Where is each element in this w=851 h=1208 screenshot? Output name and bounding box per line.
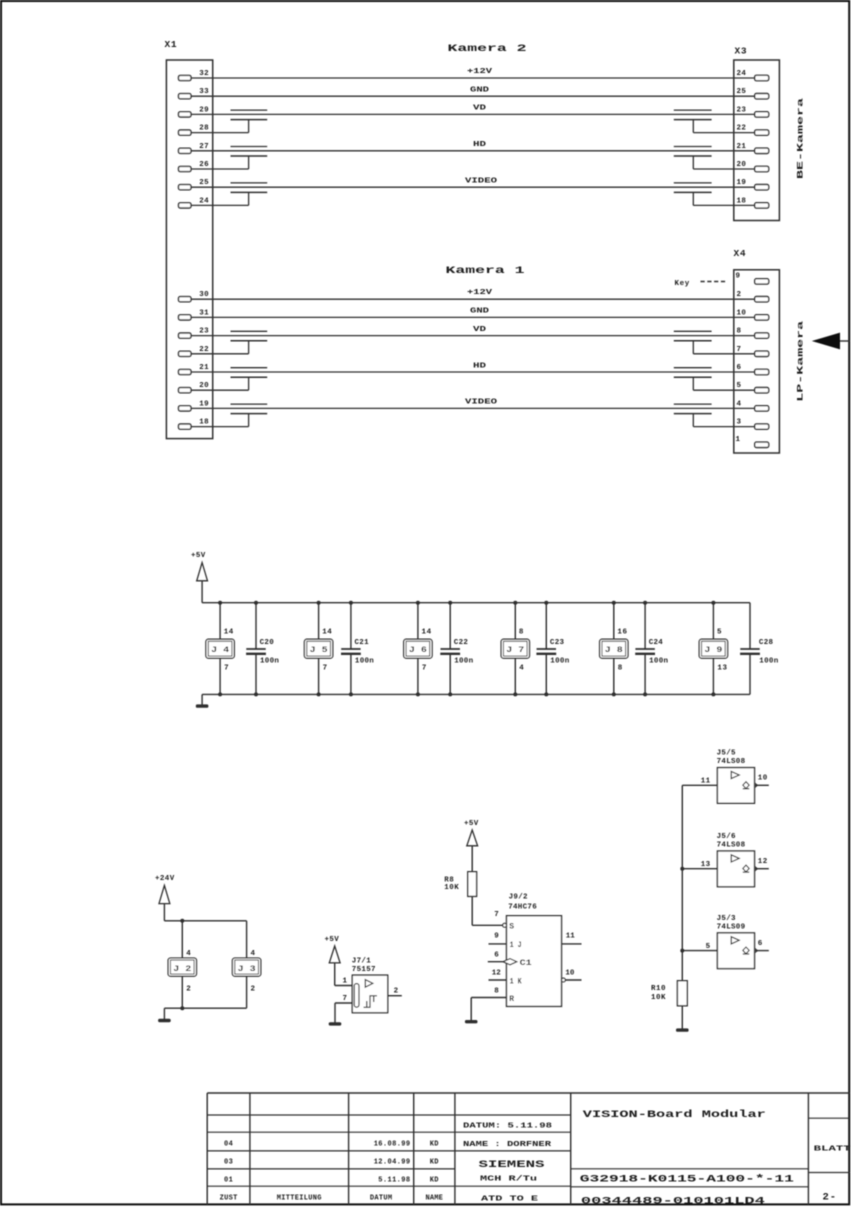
svg-text:01: 01 — [224, 1176, 233, 1184]
svg-text:S: S — [509, 922, 514, 931]
svg-text:1: 1 — [736, 436, 741, 444]
svg-text:6: 6 — [737, 364, 742, 372]
svg-text:8: 8 — [494, 988, 499, 996]
svg-text:J 7: J 7 — [506, 646, 524, 655]
svg-text:100n: 100n — [260, 658, 279, 666]
svg-text:C20: C20 — [260, 639, 275, 647]
svg-text:16: 16 — [617, 629, 627, 637]
svg-text:+24V: +24V — [155, 875, 175, 883]
svg-text:32: 32 — [199, 70, 209, 78]
svg-text:C21: C21 — [355, 639, 370, 647]
svg-text:26: 26 — [199, 161, 209, 169]
svg-text:7: 7 — [494, 911, 499, 919]
svg-text:13: 13 — [701, 861, 711, 869]
svg-text:74LS08: 74LS08 — [717, 758, 746, 766]
svg-text:3: 3 — [737, 419, 742, 427]
svg-text:GND: GND — [470, 308, 489, 316]
svg-text:J7/1: J7/1 — [352, 957, 371, 965]
svg-text:7: 7 — [323, 664, 328, 672]
svg-text:DATUM: 5.11.98: DATUM: 5.11.98 — [463, 1123, 552, 1131]
svg-text:10K: 10K — [651, 994, 666, 1002]
svg-text:HD: HD — [473, 141, 486, 149]
svg-text:100n: 100n — [649, 658, 668, 666]
svg-text:24: 24 — [737, 70, 747, 78]
svg-text:9: 9 — [494, 933, 499, 941]
svg-text:5: 5 — [737, 382, 742, 390]
svg-text:7: 7 — [737, 346, 742, 354]
svg-text:10: 10 — [565, 970, 575, 978]
svg-text:C22: C22 — [454, 639, 469, 647]
svg-text:27: 27 — [199, 143, 209, 151]
svg-text:18: 18 — [737, 197, 747, 205]
svg-text:4: 4 — [737, 400, 742, 408]
svg-text:7: 7 — [422, 664, 427, 672]
svg-text:12: 12 — [758, 858, 768, 866]
svg-text:100n: 100n — [355, 658, 374, 666]
svg-text:7: 7 — [343, 995, 348, 1003]
svg-text:1 J: 1 J — [510, 941, 522, 950]
svg-text:4: 4 — [251, 950, 256, 958]
svg-text:7: 7 — [224, 664, 229, 672]
svg-text:R: R — [509, 995, 514, 1004]
svg-text:+12V: +12V — [467, 289, 493, 297]
svg-text:11: 11 — [701, 778, 711, 786]
svg-text:24: 24 — [199, 197, 209, 205]
svg-text:14: 14 — [322, 629, 332, 637]
svg-text:NAME : DORFNER: NAME : DORFNER — [463, 1141, 552, 1149]
svg-text:C23: C23 — [550, 639, 565, 647]
svg-text:33: 33 — [199, 88, 209, 96]
svg-text:20: 20 — [737, 161, 747, 169]
svg-text:Key: Key — [675, 280, 690, 288]
svg-text:03: 03 — [224, 1158, 233, 1166]
svg-text:10K: 10K — [444, 884, 459, 892]
svg-text:2: 2 — [394, 988, 399, 996]
svg-text:22: 22 — [737, 125, 747, 133]
svg-text:+12V: +12V — [467, 68, 493, 76]
svg-text:100n: 100n — [550, 658, 569, 666]
svg-text:25: 25 — [737, 88, 747, 96]
svg-text:18: 18 — [199, 419, 209, 427]
svg-text:Kamera 1: Kamera 1 — [446, 265, 525, 277]
svg-text:J 2: J 2 — [173, 965, 191, 974]
svg-text:+5V: +5V — [464, 820, 479, 828]
svg-text:KD: KD — [430, 1176, 439, 1184]
svg-text:22: 22 — [199, 346, 209, 354]
svg-text:KD: KD — [430, 1140, 439, 1148]
svg-text:VISION-Board Modular: VISION-Board Modular — [583, 1109, 766, 1121]
svg-text:X4: X4 — [734, 248, 747, 259]
svg-text:MITTEILUNG: MITTEILUNG — [277, 1194, 322, 1202]
svg-text:J 9: J 9 — [704, 646, 722, 655]
svg-text:+5V: +5V — [191, 552, 206, 560]
svg-text:C1: C1 — [520, 959, 532, 968]
svg-text:21: 21 — [737, 143, 747, 151]
svg-text:04: 04 — [224, 1140, 233, 1148]
svg-text:J5/3: J5/3 — [717, 915, 736, 923]
svg-text:4: 4 — [519, 664, 524, 672]
svg-text:31: 31 — [199, 309, 209, 317]
svg-text:2: 2 — [186, 986, 191, 994]
svg-text:G32918-K0115-A100-*-11: G32918-K0115-A100-*-11 — [580, 1174, 794, 1186]
svg-text:X1: X1 — [165, 39, 178, 50]
svg-text:1 K: 1 K — [510, 977, 522, 986]
svg-text:Kamera 2: Kamera 2 — [448, 43, 527, 55]
svg-text:BE-Kamera: BE-Kamera — [797, 98, 806, 179]
svg-text:23: 23 — [199, 328, 209, 336]
svg-text:100n: 100n — [454, 658, 473, 666]
svg-text:30: 30 — [199, 291, 209, 299]
svg-text:12: 12 — [492, 970, 502, 978]
svg-text:J 5: J 5 — [310, 646, 328, 655]
svg-text:MCH R/Tu: MCH R/Tu — [480, 1176, 537, 1184]
svg-text:25: 25 — [199, 179, 209, 187]
svg-text:16.08.99: 16.08.99 — [374, 1140, 411, 1148]
svg-text:R8: R8 — [444, 876, 454, 884]
svg-text:74HC76: 74HC76 — [508, 904, 537, 912]
svg-text:20: 20 — [199, 382, 209, 390]
svg-text:+5V: +5V — [325, 936, 340, 944]
svg-text:9: 9 — [736, 273, 741, 281]
svg-text:100n: 100n — [759, 658, 778, 666]
svg-text:NAME: NAME — [425, 1194, 443, 1202]
svg-text:6: 6 — [494, 952, 499, 960]
svg-text:X3: X3 — [735, 46, 748, 57]
svg-text:LP-Kamera: LP-Kamera — [797, 320, 806, 401]
svg-text:SIEMENS: SIEMENS — [479, 1160, 545, 1171]
svg-text:10: 10 — [758, 775, 768, 783]
svg-text:14: 14 — [422, 629, 432, 637]
svg-text:KD: KD — [430, 1158, 439, 1166]
svg-text:8: 8 — [519, 629, 524, 637]
svg-text:23: 23 — [737, 106, 747, 114]
svg-text:4: 4 — [186, 950, 191, 958]
svg-text:J 3: J 3 — [238, 965, 256, 974]
svg-text:J5/6: J5/6 — [717, 833, 736, 841]
svg-text:ZUST: ZUST — [220, 1194, 238, 1202]
svg-text:DATUM: DATUM — [370, 1194, 393, 1202]
svg-text:2: 2 — [251, 986, 256, 994]
svg-text:GND: GND — [470, 87, 489, 95]
svg-text:5: 5 — [717, 629, 722, 637]
svg-text:J9/2: J9/2 — [509, 894, 528, 902]
svg-text:19: 19 — [199, 400, 209, 408]
svg-text:VD: VD — [473, 326, 486, 334]
svg-text:74LS08: 74LS08 — [717, 842, 746, 850]
svg-text:C28: C28 — [759, 639, 774, 647]
svg-text:8: 8 — [737, 328, 742, 336]
svg-text:C24: C24 — [649, 639, 664, 647]
svg-text:00344489-010101LD4: 00344489-010101LD4 — [581, 1196, 765, 1208]
svg-text:14: 14 — [224, 629, 234, 637]
svg-text:2-: 2- — [823, 1192, 838, 1204]
svg-text:8: 8 — [618, 664, 623, 672]
svg-text:R10: R10 — [651, 985, 666, 993]
svg-text:VIDEO: VIDEO — [465, 399, 497, 407]
svg-text:5.11.98: 5.11.98 — [378, 1176, 410, 1184]
svg-text:13: 13 — [717, 664, 727, 672]
svg-text:28: 28 — [199, 125, 209, 133]
svg-text:J 6: J 6 — [409, 646, 427, 655]
svg-text:2: 2 — [737, 291, 742, 299]
svg-text:6: 6 — [758, 940, 763, 948]
svg-text:19: 19 — [737, 179, 747, 187]
svg-text:1: 1 — [343, 978, 348, 986]
svg-text:VIDEO: VIDEO — [465, 178, 497, 186]
svg-text:VD: VD — [473, 105, 486, 113]
svg-text:11: 11 — [566, 933, 576, 941]
svg-text:J 8: J 8 — [605, 646, 623, 655]
svg-text:75157: 75157 — [352, 966, 376, 974]
svg-text:5: 5 — [706, 943, 711, 951]
svg-text:J 4: J 4 — [211, 646, 229, 655]
svg-text:10: 10 — [737, 309, 747, 317]
svg-text:ATD TO E: ATD TO E — [481, 1196, 538, 1204]
svg-text:29: 29 — [199, 106, 209, 114]
svg-text:74LS09: 74LS09 — [717, 923, 746, 931]
svg-text:J5/5: J5/5 — [717, 750, 736, 758]
svg-text:HD: HD — [473, 362, 486, 370]
svg-text:12.04.99: 12.04.99 — [374, 1158, 411, 1166]
svg-text:BLATT: BLATT — [814, 1146, 851, 1154]
svg-text:21: 21 — [199, 364, 209, 372]
